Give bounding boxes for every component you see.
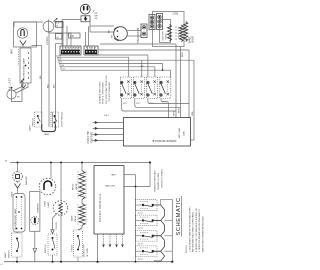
light switch column xyxy=(51,112,59,127)
svg-text:WH: WH xyxy=(112,34,114,38)
svg-text:LINE: LINE xyxy=(192,111,194,116)
label 4 AMP xyxy=(44,133,51,136)
svg-text:4 AMP: 4 AMP xyxy=(44,133,51,136)
label under B2 xyxy=(138,228,144,230)
oven control enclosure xyxy=(153,12,185,47)
wires to thermostat xyxy=(90,26,114,32)
label LAMP xyxy=(11,191,14,197)
svg-text:BLK: BLK xyxy=(47,83,49,88)
wire plug to left xyxy=(62,19,82,46)
starter lamp circle xyxy=(31,217,39,225)
svg-text:XX YY: XX YY xyxy=(138,259,144,261)
svg-text:NOTES:: NOTES: xyxy=(186,244,188,253)
label BALLAST top xyxy=(9,77,12,90)
clock motor M1 xyxy=(43,18,57,33)
svg-text:BAKE: BAKE xyxy=(71,215,74,221)
svg-text:3. SERVICER PLEASE RETURN: 3. SERVICER PLEASE RETURN DIAGRAM TO xyxy=(198,209,201,252)
burner switch B1 xyxy=(135,200,157,211)
label BAKE VALVE 2 xyxy=(71,215,77,222)
note 3 xyxy=(198,209,201,252)
svg-text:SWITCH: SWITCH xyxy=(45,244,47,253)
label SURFACE SWITCHES block xyxy=(98,75,111,104)
label box W G xyxy=(56,34,63,40)
svg-text:P B O: P B O xyxy=(104,115,110,117)
label DOOR TOP xyxy=(84,244,89,257)
wire drop B xyxy=(49,33,52,127)
svg-text:PUSH & TURN KNOB: PUSH & TURN KNOB xyxy=(103,82,105,104)
wire S1 to module xyxy=(122,99,176,112)
svg-text:BRN: BRN xyxy=(179,108,181,113)
ignitor box xyxy=(160,20,171,43)
label LIGHT SWITCH xyxy=(62,112,64,127)
wire lamp2 down xyxy=(16,232,18,233)
label under S1 xyxy=(123,103,128,105)
burner B2 rail stub xyxy=(136,219,142,221)
wire ignitor lead 4 xyxy=(93,139,124,142)
note 1b xyxy=(192,211,195,252)
note 3b xyxy=(202,215,205,252)
burner element E3 xyxy=(154,236,165,251)
wire y44 run xyxy=(100,43,176,45)
lamp housing box xyxy=(14,22,37,47)
ballast B2 xyxy=(13,163,23,182)
surface switch S1 xyxy=(120,77,131,99)
wire plug down xyxy=(89,22,91,32)
module2 neutral stub xyxy=(124,163,150,188)
burner B3 rail stub xyxy=(136,235,142,237)
wire to bus2 xyxy=(16,257,18,262)
svg-text:LINE: LINE xyxy=(111,173,116,175)
label CLOCK 2 xyxy=(56,221,58,229)
burner element E2 xyxy=(154,220,165,235)
svg-text:RANGE WITH LITERATURE PACKA: RANGE WITH LITERATURE PACKAGE. xyxy=(202,215,205,252)
label THERMOSTAT xyxy=(137,27,140,44)
label CLOCK xyxy=(46,36,49,45)
connector block B xyxy=(149,15,155,30)
wire BRN drop xyxy=(181,47,185,118)
label under B3 xyxy=(138,244,144,246)
svg-text:SWITCH: SWITCH xyxy=(33,118,35,127)
wire ignitor lead 1 xyxy=(93,121,124,124)
svg-text:OF OVEN: OF OVEN xyxy=(87,247,89,257)
wires clock to terminal block xyxy=(49,22,71,46)
bus line bottom xyxy=(0,261,173,266)
wire ignitor lead 3 xyxy=(93,133,124,136)
burner switch B3 xyxy=(135,231,157,242)
label 2 OR 4 TOP IGNITORS xyxy=(88,130,93,143)
label SPARK MODULE 2 xyxy=(98,193,102,222)
terminal strip 1 xyxy=(60,46,81,55)
thermostat wire labels xyxy=(109,30,114,38)
terminal dots column xyxy=(175,26,178,39)
plug stem box xyxy=(81,16,90,22)
oven lamp circle xyxy=(39,163,56,195)
svg-text:BALLAST: BALLAST xyxy=(25,175,28,185)
label SWITCH 2 xyxy=(45,244,47,253)
wire starter to bus2 xyxy=(33,231,37,261)
label BLK 2 xyxy=(47,83,49,88)
svg-text:NEUTRAL: NEUTRAL xyxy=(178,127,181,138)
svg-text:IGNITOR: IGNITOR xyxy=(163,31,165,40)
svg-text:BAKE: BAKE xyxy=(188,36,191,43)
label BALLAST 2 xyxy=(25,175,28,185)
svg-text:CLOCK: CLOCK xyxy=(56,221,58,229)
connector block A xyxy=(141,24,147,38)
label BROIL VALVE xyxy=(73,183,78,190)
label OVEN LAMP xyxy=(45,201,50,208)
svg-text:FLUORESCENT LAMP: FLUORESCENT LAMP xyxy=(14,208,17,230)
svg-text:OVEN: OVEN xyxy=(45,201,47,207)
spark module 2 box xyxy=(94,166,124,234)
svg-text:WHT: WHT xyxy=(174,111,176,116)
wire bus y63 xyxy=(59,63,163,70)
lamp switch bottom xyxy=(12,233,23,257)
svg-text:BRN: BRN xyxy=(182,52,184,57)
burner right rail xyxy=(161,199,173,261)
wire bus y60 xyxy=(58,60,194,77)
label under S2 xyxy=(136,103,141,105)
note 1 xyxy=(188,205,191,252)
clock switch column xyxy=(48,213,58,262)
svg-text:WHT: WHT xyxy=(12,48,14,54)
wire S4 to module xyxy=(161,99,169,118)
svg-text:LAMP: LAMP xyxy=(4,252,7,258)
wire y55 run xyxy=(99,55,148,77)
label under S3 xyxy=(149,103,154,105)
label WHT xyxy=(12,48,14,54)
wire bus y67 xyxy=(60,67,155,77)
indicator lamp L1 xyxy=(17,28,27,38)
terminal strip 2 xyxy=(84,46,98,55)
svg-text:STARTER: STARTER xyxy=(36,203,39,213)
svg-text:BROIL: BROIL xyxy=(73,183,75,190)
svg-text:TO LIGHT BURNER: TO LIGHT BURNER xyxy=(109,82,111,102)
svg-text:T-STAT: T-STAT xyxy=(71,244,74,252)
svg-text:VALVE: VALVE xyxy=(191,35,194,43)
label LINE inverted xyxy=(111,173,116,175)
svg-text:W: W xyxy=(57,37,59,39)
svg-text:(FRONT TO START): (FRONT TO START) xyxy=(161,169,164,188)
wire S2 to module xyxy=(135,99,181,108)
label FLUORESCENT LAMP 2 xyxy=(14,208,17,230)
svg-text:OUT FOR START POSITION: OUT FOR START POSITION xyxy=(105,75,108,104)
label under B4 xyxy=(138,259,144,261)
title SCHEMATIC xyxy=(176,196,182,237)
wire bus y57 xyxy=(57,57,129,77)
bus line mid xyxy=(5,161,151,164)
svg-text:IGNITORS: IGNITORS xyxy=(91,131,93,143)
label LAMP SWITCH xyxy=(4,250,10,258)
power cord plug xyxy=(80,4,90,14)
svg-text:2. REFER ONLY TO FEATURES: 2. REFER ONLY TO FEATURES EQUIPPED ON xyxy=(195,208,198,252)
burner B4 rail stub xyxy=(136,250,142,252)
burner element E1 xyxy=(154,205,165,220)
label SWITCH xyxy=(28,118,34,131)
starter box xyxy=(30,192,40,232)
svg-text:XX-Y: XX-Y xyxy=(136,103,141,105)
svg-text:P B: P B xyxy=(70,36,74,38)
svg-text:SURFACE SWITCHES: SURFACE SWITCHES xyxy=(98,81,101,104)
resistor bake valve 2 xyxy=(78,200,86,226)
wires into strip2 xyxy=(86,26,89,46)
label BLK 1 xyxy=(40,74,42,79)
dashed sense line xyxy=(18,49,20,66)
svg-text:NEUTRAL: NEUTRAL xyxy=(104,184,115,187)
wire LINE drop xyxy=(191,60,195,140)
svg-text:SHOWN CLOSED: SHOWN CLOSED xyxy=(158,172,160,190)
note 2 xyxy=(195,208,198,252)
resistor broil element xyxy=(179,25,183,42)
ballast loop wire xyxy=(12,79,25,102)
label SURFACE SWITCHES 2 xyxy=(154,169,164,192)
wire y50 run xyxy=(99,49,190,51)
ballast B1 circle xyxy=(7,87,16,99)
label NEUTRAL inverted xyxy=(104,184,115,187)
svg-text:VALVE: VALVE xyxy=(75,183,78,190)
svg-text:BLK: BLK xyxy=(54,83,56,88)
label SPARK MODULE inverted xyxy=(152,139,176,143)
svg-text:W: W xyxy=(60,58,62,60)
clock motor 2 xyxy=(53,163,68,216)
wire top-left bus xyxy=(14,22,43,27)
spark module box xyxy=(124,118,191,147)
burner element E4 xyxy=(154,251,165,261)
burner B1 rail stub xyxy=(136,204,142,206)
svg-text:XX YY: XX YY xyxy=(138,213,144,215)
label FLUORESCENT LAMP xyxy=(23,58,26,81)
wire resistor to t-stat xyxy=(78,226,82,231)
svg-text:LAMP: LAMP xyxy=(47,201,50,207)
svg-text:LAMP: LAMP xyxy=(28,125,31,131)
arrow to lamp 2 xyxy=(15,181,21,193)
wires lamp box to ballast xyxy=(13,83,28,93)
burner switch B2 xyxy=(135,215,157,226)
fluorescent lamp box xyxy=(20,48,31,83)
label BAKE VALVE xyxy=(188,35,194,43)
label NEUTRAL LINE xyxy=(178,127,186,138)
wire staircase xyxy=(57,55,61,70)
t-stat switch xyxy=(74,230,83,262)
wire left drop to module xyxy=(175,44,177,118)
wire color labels xyxy=(59,55,66,70)
label T-STAT xyxy=(71,244,74,252)
label COM xyxy=(173,13,179,16)
label OVEN IGNITOR xyxy=(163,31,168,40)
svg-text:SURFACE SWITCHES: SURFACE SWITCHES xyxy=(154,170,157,192)
svg-text:XX YY: XX YY xyxy=(138,244,144,246)
svg-text:SWITCH: SWITCH xyxy=(8,250,10,258)
wire ignitor lead 2 xyxy=(93,127,124,130)
wire pin1 to bus2 xyxy=(97,234,99,263)
svg-text:LINE: LINE xyxy=(183,131,185,136)
svg-text:BEFORE REMOVING WIRE COVER: BEFORE REMOVING WIRE COVER PANEL. xyxy=(192,211,195,252)
label STARTER xyxy=(36,203,39,213)
svg-text:LIGHT SWITCH: LIGHT SWITCH xyxy=(62,112,64,127)
svg-text:COM: COM xyxy=(173,13,179,16)
arrow below lamp xyxy=(20,41,26,48)
oven thermostat xyxy=(114,27,128,41)
surface switch S2 xyxy=(134,77,145,99)
wire drop C xyxy=(55,44,63,124)
svg-text:BALLAST: BALLAST xyxy=(9,77,12,90)
burner switch B4 xyxy=(135,246,157,257)
surface switch S4 xyxy=(160,77,171,99)
surface switch S3 xyxy=(147,77,158,99)
svg-text:XX-Y: XX-Y xyxy=(123,103,128,105)
svg-text:DOOR & TOP: DOOR & TOP xyxy=(84,244,86,257)
svg-text:1. DISCONNECT RANGE FROM P: 1. DISCONNECT RANGE FROM POWER SUPPLY xyxy=(188,205,191,252)
label under S4 xyxy=(162,103,167,105)
connector block C xyxy=(157,14,163,30)
wire S3 to module xyxy=(148,99,189,104)
svg-text:OVEN: OVEN xyxy=(166,33,168,40)
label under B1 xyxy=(138,213,144,215)
resistor broil valve xyxy=(78,163,86,200)
module2 bottom pins xyxy=(102,234,124,248)
fluorescent lamp 2 box xyxy=(13,194,25,233)
wire bus y70 xyxy=(61,69,170,77)
svg-text:SPARK MODULE: SPARK MODULE xyxy=(152,139,176,143)
svg-text:SPARK MODULE: SPARK MODULE xyxy=(98,193,102,222)
svg-text:FLUORESCENT LAMP: FLUORESCENT LAMP xyxy=(23,58,26,81)
label NOTES xyxy=(186,244,188,253)
label box P B xyxy=(69,33,81,38)
svg-text:VALVE: VALVE xyxy=(74,215,77,222)
svg-text:XX YY: XX YY xyxy=(138,228,144,230)
svg-text:BLK: BLK xyxy=(40,74,42,79)
resistor oven ignitor xyxy=(168,25,172,42)
resistor bake element xyxy=(184,22,188,42)
label BLK 3 xyxy=(54,83,56,88)
wires thermostat to connectors xyxy=(127,27,141,36)
receptacle U loop xyxy=(42,124,56,132)
svg-text:THERMOSTAT: THERMOSTAT xyxy=(137,27,140,44)
labels on module feeds xyxy=(174,108,181,116)
label P B O xyxy=(104,115,110,117)
module2 line stub xyxy=(124,175,136,262)
labels at plug xyxy=(93,10,99,20)
svg-text:2 OR 4 TOP: 2 OR 4 TOP xyxy=(88,130,90,143)
wire drop A xyxy=(32,46,42,125)
label box L1 N xyxy=(56,21,64,27)
wire right drop to module xyxy=(188,50,190,118)
lamp switch column xyxy=(35,112,43,127)
clock wire to bus2 xyxy=(60,214,62,261)
